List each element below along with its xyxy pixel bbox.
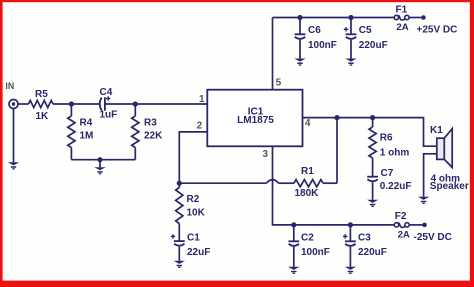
pin 1 label	[199, 94, 205, 105]
wire speaker lower terminal	[424, 154, 437, 197]
label 220uF top	[359, 40, 388, 51]
wire to center ground	[99, 160, 101, 168]
svg-text:K1: K1	[430, 125, 443, 136]
label C3	[358, 232, 371, 243]
wire R3 to ground rail	[134, 148, 136, 160]
wire node to R3	[134, 104, 136, 116]
label -25V DC	[414, 232, 452, 243]
label C1	[187, 232, 200, 243]
label 22uF	[187, 247, 210, 258]
svg-text:R3: R3	[144, 118, 157, 129]
label 1uF	[100, 110, 118, 121]
wire C4 to pin 1	[105, 103, 207, 105]
svg-text:-25V DC: -25V DC	[414, 232, 452, 243]
label IN	[5, 81, 14, 91]
label R4	[80, 118, 93, 129]
svg-text:C6: C6	[308, 25, 321, 36]
svg-text:C5: C5	[359, 25, 372, 36]
node junction at R3 top	[133, 101, 138, 106]
terminal -25V	[422, 223, 427, 228]
capacitor C6	[295, 34, 306, 39]
svg-text:C2: C2	[301, 232, 314, 243]
svg-text:IN: IN	[5, 81, 14, 91]
svg-text:100nF: 100nF	[308, 40, 337, 51]
node junction C2 top	[291, 222, 296, 227]
node junction C6 top	[297, 15, 302, 20]
svg-text:180K: 180K	[295, 188, 320, 199]
svg-text:220uF: 220uF	[358, 247, 387, 258]
input jack IN connector	[9, 100, 18, 109]
wire R4-R3 ground rail	[71, 159, 135, 161]
plus sign of C5	[344, 27, 348, 31]
fuse F2	[394, 223, 409, 228]
label 180K	[295, 188, 320, 199]
label R5	[35, 89, 48, 100]
svg-text:R1: R1	[301, 166, 314, 177]
wire F2 to terminal	[409, 224, 422, 226]
resistor R6	[369, 127, 376, 158]
svg-text:1K: 1K	[36, 111, 50, 122]
label F2	[395, 211, 407, 222]
fuse F1	[394, 15, 409, 20]
svg-text:Speaker: Speaker	[430, 181, 469, 192]
ground at input jack	[8, 162, 19, 169]
plus sign of C4	[106, 96, 110, 100]
plus sign of C1	[171, 234, 175, 238]
resistor R2	[176, 188, 183, 224]
op-amp IC1 LM1875 body	[207, 90, 302, 147]
label C2	[301, 232, 314, 243]
node junction on ground rail	[97, 157, 102, 162]
wire R4 to ground rail	[70, 148, 72, 160]
terminal +25V	[421, 15, 426, 20]
wire C2 stem bottom	[293, 247, 295, 267]
svg-text:F2: F2	[395, 211, 407, 222]
svg-text:220uF: 220uF	[359, 40, 388, 51]
wire R1 to hop	[279, 182, 294, 184]
capacitor C3	[345, 241, 356, 246]
label Speaker	[430, 181, 469, 192]
node junction R6 top	[370, 115, 375, 120]
ground under C5	[345, 59, 356, 66]
wire +25V rail	[273, 17, 395, 19]
label 0.22uF	[380, 181, 412, 192]
label 1M	[80, 131, 94, 142]
wire hop to pin2 node	[179, 182, 266, 184]
label 1 ohm	[380, 148, 410, 159]
label F1	[396, 5, 408, 16]
svg-text:1 ohm: 1 ohm	[380, 148, 410, 159]
wire C2 stem top	[293, 225, 295, 241]
wire C7 stem bottom	[372, 182, 374, 199]
wire node to R4	[70, 104, 72, 116]
svg-text:C4: C4	[100, 87, 113, 98]
pin 4 label	[305, 118, 311, 129]
svg-text:5: 5	[276, 78, 282, 89]
wire C3 stem bottom	[349, 247, 351, 267]
wire hop over pin 3 line	[266, 180, 278, 184]
svg-text:3: 3	[263, 149, 269, 160]
border frame top	[0, 0, 474, 2]
wire R2 top lead	[178, 183, 180, 187]
ground under C7	[367, 200, 378, 207]
label LM1875	[237, 115, 274, 126]
capacitor C5	[346, 34, 357, 39]
label 220uF bottom	[358, 247, 387, 258]
label R3	[144, 118, 157, 129]
svg-text:2A: 2A	[396, 22, 408, 33]
svg-text:22uF: 22uF	[187, 247, 210, 258]
svg-text:2: 2	[197, 120, 203, 131]
svg-text:C3: C3	[358, 232, 371, 243]
wire pin 5 to +rail	[272, 18, 274, 90]
wire R5 to C4	[53, 103, 100, 105]
ground under C3	[345, 267, 356, 274]
node junction at R4 top	[69, 101, 74, 106]
label C5	[359, 25, 372, 36]
capacitor C2	[288, 241, 299, 246]
wire R6 to C7	[372, 158, 374, 177]
svg-text:R2: R2	[187, 194, 200, 205]
label C4	[100, 87, 113, 98]
pin 5 label	[276, 78, 282, 89]
label 22K	[144, 131, 163, 142]
wire C5 stem bottom	[350, 40, 352, 59]
label R6	[380, 133, 393, 144]
svg-text:C7: C7	[381, 168, 394, 179]
svg-text:22K: 22K	[144, 131, 163, 142]
label C7	[381, 168, 394, 179]
svg-text:C1: C1	[187, 232, 200, 243]
wire C6 stem bottom	[299, 40, 301, 59]
label R1	[301, 166, 314, 177]
label K1	[430, 125, 443, 136]
svg-text:+25V DC: +25V DC	[417, 25, 458, 36]
resistor R5	[29, 100, 54, 107]
label C6	[308, 25, 321, 36]
svg-text:F1: F1	[396, 5, 408, 16]
label IC1	[248, 107, 264, 118]
wire jack to ground	[13, 109, 15, 163]
node junction C5 top	[348, 15, 353, 20]
wire R2 to C1	[178, 224, 180, 242]
label 100nF top	[308, 40, 337, 51]
label 100nF bottom	[301, 247, 330, 258]
border frame left	[0, 0, 3, 287]
svg-text:4: 4	[305, 118, 311, 129]
svg-text:1uF: 1uF	[100, 110, 118, 121]
ground under C2	[288, 267, 299, 274]
ground center	[94, 167, 105, 174]
svg-text:R5: R5	[35, 89, 48, 100]
svg-text:100nF: 100nF	[301, 247, 330, 258]
wire pin 2	[179, 132, 207, 183]
wire pin 3 to -rail	[273, 146, 395, 225]
wire jack to R5	[18, 103, 29, 105]
svg-text:1: 1	[199, 94, 205, 105]
plus sign of C3	[343, 234, 347, 238]
node junction C3 top	[348, 222, 353, 227]
speaker K1 cone	[444, 129, 452, 168]
svg-text:2A: 2A	[398, 230, 410, 241]
resistor R4	[68, 116, 75, 148]
label 1K	[36, 111, 50, 122]
capacitor C4	[100, 97, 105, 110]
wire C6 stem top	[299, 18, 301, 35]
wire C3 stem top	[349, 225, 351, 241]
wire R6 top lead	[372, 118, 374, 127]
label 2A bottom	[398, 230, 410, 241]
capacitor C1	[174, 241, 185, 246]
ground under C1	[174, 261, 185, 268]
svg-text:0.22uF: 0.22uF	[380, 181, 412, 192]
pin 3 label	[263, 149, 269, 160]
label 4 ohm	[431, 174, 461, 185]
wire C5 stem top	[350, 18, 352, 35]
svg-text:R4: R4	[80, 118, 93, 129]
label +25V DC	[417, 25, 458, 36]
border frame bottom	[0, 281, 474, 287]
svg-text:R6: R6	[380, 133, 393, 144]
label 10K	[187, 208, 206, 219]
wire feedback vertical	[336, 118, 338, 184]
svg-text:10K: 10K	[187, 208, 206, 219]
border frame right	[470, 0, 474, 287]
resistor R3	[132, 116, 139, 148]
svg-text:1M: 1M	[80, 131, 94, 142]
wire pin 4 output	[303, 118, 437, 147]
wire F1 to terminal	[409, 17, 421, 19]
wire C1 stem bottom	[178, 247, 180, 261]
ground under speaker	[418, 197, 429, 204]
label R2	[187, 194, 200, 205]
node junction feedback tap	[334, 115, 339, 120]
label 2A top	[396, 22, 408, 33]
ground under C6	[294, 59, 305, 66]
svg-text:LM1875: LM1875	[237, 115, 274, 126]
pin 2 label	[197, 120, 203, 131]
capacitor C7	[367, 177, 378, 182]
speaker K1 magnet	[437, 138, 445, 159]
node junction R2 top	[177, 181, 182, 186]
resistor R1	[294, 180, 323, 187]
wire R1 right lead	[323, 182, 337, 184]
